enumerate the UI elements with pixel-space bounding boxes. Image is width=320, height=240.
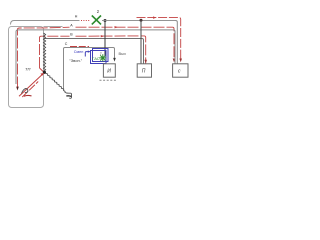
svg-text:И: И bbox=[107, 69, 111, 75]
svg-text:Смен: Смен bbox=[74, 50, 84, 54]
svg-text:"Звон.": "Звон." bbox=[69, 58, 82, 63]
svg-text:Н: Н bbox=[75, 14, 78, 18]
svg-text:С: С bbox=[65, 42, 68, 46]
svg-text:П: П bbox=[142, 69, 146, 75]
svg-text:ТП: ТП bbox=[25, 67, 30, 72]
svg-text:ГАС: ГАС bbox=[92, 56, 99, 61]
svg-text:Вых: Вых bbox=[119, 51, 127, 56]
svg-text:7: 7 bbox=[100, 52, 102, 56]
